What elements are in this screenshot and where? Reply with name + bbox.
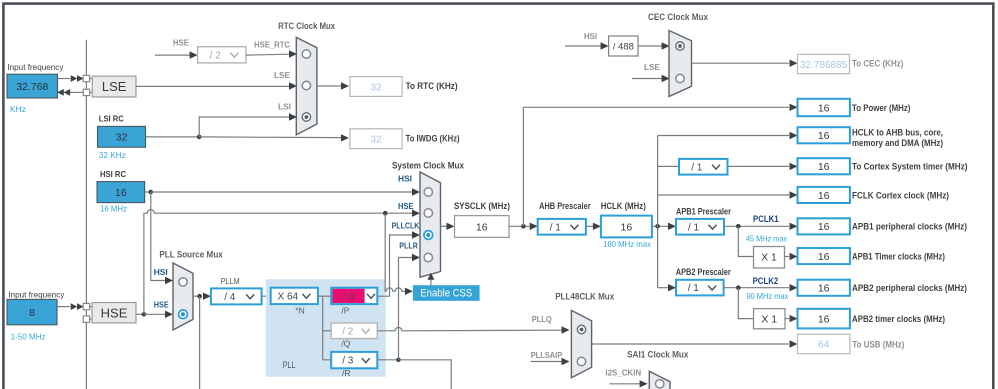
svg-text:16: 16 <box>115 187 127 199</box>
wire to /Q <box>323 330 332 332</box>
svg-text:PLLSAIP: PLLSAIP <box>531 350 563 360</box>
svg-text:SYSCLK (MHz): SYSCLK (MHz) <box>454 201 510 211</box>
svg-text:16: 16 <box>621 221 633 233</box>
wire square to LSE box 2 <box>90 91 93 93</box>
source box HSI RC 16 <box>97 182 145 203</box>
junction SYSCLK branch <box>521 224 526 229</box>
wire HSE stub to divider <box>155 54 190 56</box>
svg-text:*N: *N <box>295 305 304 315</box>
svg-text:To USB (MHz): To USB (MHz) <box>852 339 904 349</box>
svg-text:LSI RC: LSI RC <box>99 113 124 123</box>
label HSI (sys mux) <box>398 173 412 183</box>
wire HSI stub to /488 <box>565 45 601 47</box>
arrow I2S_CKIN into SAI1 mux <box>640 380 648 387</box>
svg-text:64: 64 <box>818 340 830 351</box>
junction PLL source output <box>197 294 202 299</box>
label HSE (sys mux) <box>398 201 414 211</box>
arrow HSI into PLL source mux <box>165 277 173 284</box>
label HCLK (MHz) <box>601 201 646 211</box>
svg-text:To Cortex System timer (MHz): To Cortex System timer (MHz) <box>852 161 968 171</box>
arrow into IWDG box <box>341 134 349 141</box>
label HCLK to AHB bus core <box>852 127 943 148</box>
svg-text:16: 16 <box>476 221 488 233</box>
svg-text:/ 2: / 2 <box>342 326 354 337</box>
radio sys HSI <box>424 188 432 196</box>
double arrow LSE in <box>71 75 84 82</box>
value box HCLK AHB 16 <box>798 127 850 143</box>
svg-text:HSE: HSE <box>101 305 128 320</box>
wire to cortex prescaler <box>658 165 679 167</box>
wire PLL source down branch <box>199 296 201 389</box>
arrow into SYSCLK box <box>447 223 455 230</box>
dropdown AHB prescaler /1 <box>538 219 586 235</box>
svg-text:16 MHz: 16 MHz <box>100 204 127 214</box>
label PLL48CLK Mux <box>555 291 614 301</box>
arrow into APB2 prescaler <box>668 284 676 291</box>
wire APB1 to periph box <box>724 225 789 227</box>
wire divider vertical <box>322 296 324 360</box>
arrow into APB1 periph box <box>790 223 798 230</box>
wire HSE box to connector <box>57 306 70 308</box>
dropdown PLL /P (magenta /8) <box>331 288 377 304</box>
label KHz <box>10 104 26 114</box>
mux RTC Clock Mux <box>296 37 317 134</box>
svg-text:/R: /R <box>342 368 351 378</box>
wire vertical source bus <box>85 40 87 389</box>
arrow PLLR into system mux <box>412 254 420 261</box>
value box APB2 periph 16 <box>798 280 850 296</box>
arrow into APB2 timer box <box>790 315 798 322</box>
source box HSE input 8 <box>7 299 57 324</box>
svg-text:PLL48CLK Mux: PLL48CLK Mux <box>555 291 614 301</box>
radio sys PLLCLK selected <box>424 231 433 240</box>
junction APB1 branch <box>736 224 741 229</box>
value box To RTC 32 <box>350 77 402 97</box>
svg-text:APB2 peripheral clocks (MHz): APB2 peripheral clocks (MHz) <box>852 283 967 293</box>
dropdown PLL /Q (disabled) <box>331 323 377 339</box>
svg-text:To IWDG (KHz): To IWDG (KHz) <box>406 133 460 143</box>
svg-text:PLLCLK: PLLCLK <box>392 221 421 231</box>
arrow into RTC value box <box>341 82 349 89</box>
label CEC Clock Mux <box>648 12 708 22</box>
arrow into Enable CSS <box>405 288 413 295</box>
label LSI (rtc) <box>278 101 291 111</box>
arrow into /488 divider <box>601 42 609 49</box>
wire /P to PLLCLK <box>377 235 415 296</box>
multiplier box X1 (APB1) <box>754 247 785 269</box>
wire PLLM to xN <box>262 295 271 297</box>
svg-text:32.768: 32.768 <box>16 81 48 93</box>
svg-text:HSI: HSI <box>584 31 597 41</box>
wire cortex to box <box>728 165 790 167</box>
connector square HSE bottom <box>83 316 89 322</box>
arrow into CEC value box <box>790 60 798 67</box>
wire LSI output <box>146 136 200 138</box>
radio PLL48 PLLQ selected <box>577 325 585 333</box>
svg-text:45 MHz max: 45 MHz max <box>746 234 788 244</box>
wire LSE box to connector <box>58 78 71 80</box>
label APB1 Timer clocks <box>852 252 945 262</box>
label 32 KHz <box>99 150 126 160</box>
value box To Power 16 <box>798 99 850 116</box>
label /R <box>342 368 351 378</box>
wire AHB to HCLK <box>586 225 593 227</box>
label AHB Prescaler <box>539 201 591 211</box>
wire /Q to PLL48 mux (hop over PLLR) <box>377 327 562 330</box>
svg-text:LSE: LSE <box>274 70 290 80</box>
label HSE_RTC <box>254 40 290 50</box>
svg-text:32: 32 <box>116 132 128 144</box>
svg-text:/ 1: / 1 <box>688 283 700 294</box>
arrow into AHB prescaler <box>530 223 538 230</box>
wire HSI to system mux <box>151 191 416 193</box>
source box LSE input 32.768 <box>7 74 58 98</box>
wire HSE down to Enable CSS (hops) <box>385 213 405 291</box>
svg-text:1-50 MHz: 1-50 MHz <box>11 332 46 342</box>
arrow PLLSAIP into PLL48 mux <box>562 358 570 365</box>
wire to APB2 prescaler <box>658 287 669 289</box>
mux System Clock Mux <box>420 172 441 277</box>
label LSE (cec) <box>644 62 660 72</box>
label LSE (rtc) <box>274 70 290 80</box>
svg-text:AHB Prescaler: AHB Prescaler <box>539 201 591 211</box>
value box cortex timer 16 <box>798 158 850 174</box>
svg-text:16: 16 <box>818 161 830 173</box>
junction PLLR branch <box>396 358 401 363</box>
svg-text:HSE: HSE <box>398 201 414 211</box>
svg-text:8: 8 <box>29 307 35 319</box>
divider dropdown /2 (disabled) <box>198 47 246 63</box>
dropdown PLL xN X 64 <box>271 288 318 304</box>
wire X1 to APB2 timer box <box>785 318 789 320</box>
svg-text:PLL: PLL <box>283 360 296 370</box>
wire APB2 to periph box <box>724 287 789 289</box>
connector square LSE bottom <box>83 89 89 95</box>
wire SYSCLK to AHB prescaler <box>509 225 530 227</box>
svg-text:32.786885: 32.786885 <box>800 60 848 71</box>
wire LSI up branch to RTC mux <box>199 117 290 137</box>
radio RTC HSE_RTC <box>302 50 310 58</box>
arrow PLLQ into PLL48 mux <box>562 326 570 333</box>
svg-text:PLLR: PLLR <box>399 240 418 250</box>
svg-text:16: 16 <box>818 190 830 202</box>
svg-text:/ 1: / 1 <box>550 222 562 233</box>
label Input frequency (LSE) <box>7 62 64 72</box>
wire PLLR up to system mux <box>399 258 416 360</box>
value box To USB 64 <box>798 334 850 353</box>
label 90 MHz max <box>746 291 789 301</box>
dropdown PLL /R <box>331 352 377 368</box>
svg-text:32 KHz: 32 KHz <box>99 150 126 160</box>
svg-text:APB1 Timer clocks (MHz): APB1 Timer clocks (MHz) <box>852 252 945 262</box>
svg-text:LSE: LSE <box>644 62 660 72</box>
value box HCLK 16 <box>601 216 652 238</box>
svg-text:HSI: HSI <box>154 267 168 277</box>
svg-text:/ 2: / 2 <box>210 50 222 61</box>
svg-text:PCLK2: PCLK2 <box>753 276 779 286</box>
wire HSE to PLL source mux <box>144 313 166 315</box>
arrow into APB2 periph box <box>790 284 798 291</box>
multiplier box X1 (APB2) <box>754 309 786 329</box>
label HSI (cec) <box>584 31 597 41</box>
dropdown APB2 prescaler /1 <box>676 280 724 296</box>
label To CEC (KHz) <box>852 58 903 68</box>
label To USB (MHz) <box>852 339 904 349</box>
label *N <box>295 305 304 315</box>
arrow HSI into system mux <box>412 188 420 195</box>
wire HSI output <box>145 191 151 193</box>
wire Enable CSS to mux <box>430 277 432 285</box>
svg-text:HSI: HSI <box>398 173 412 183</box>
wire CEC mux output <box>692 62 790 64</box>
svg-text:/ 1: / 1 <box>688 222 700 233</box>
svg-text:APB1 Prescaler: APB1 Prescaler <box>676 206 731 216</box>
wire to HCLK AHB bus box <box>658 135 789 137</box>
junction HCLK branch <box>655 224 660 229</box>
wire LSI to IWDG <box>199 136 341 139</box>
arrow into HSE_RTC divider <box>190 51 198 58</box>
label To Power (MHz) <box>852 103 910 113</box>
svg-text:/ 488: / 488 <box>613 42 634 53</box>
arrow HSE into system mux <box>412 210 420 217</box>
svg-text:X 1: X 1 <box>761 313 777 325</box>
radio CEC LSE <box>676 74 684 82</box>
mux PLL Source Mux <box>173 263 193 330</box>
wire X1 to APB1 timer box <box>785 256 790 258</box>
radio PLL48 PLLSAIP <box>577 357 585 365</box>
wire square to LSE box <box>90 78 93 80</box>
wire PLL48 output to USB <box>592 343 789 345</box>
radio CEC HSI selected <box>676 42 684 50</box>
arrow into HCLK AHB box <box>790 132 798 139</box>
oscillator box HSE <box>92 303 136 323</box>
wire APB1 to X1 <box>738 226 753 256</box>
label PLLSAIP <box>531 350 563 360</box>
svg-text:HSE_RTC: HSE_RTC <box>254 40 290 50</box>
svg-text:/ 1: / 1 <box>691 162 703 173</box>
value box SYSCLK 16 <box>455 216 510 238</box>
svg-text:Enable CSS: Enable CSS <box>420 288 472 300</box>
wire to /R <box>323 359 332 361</box>
junction HSE branch <box>142 312 147 317</box>
arrow HSE_RTC into RTC mux <box>289 50 297 57</box>
arrow into FCLK box <box>790 191 798 198</box>
label To Cortex System timer <box>852 161 968 171</box>
panel PLL background <box>266 279 386 377</box>
wire square to HSE box 2 <box>90 318 93 320</box>
svg-text:180 MHz max: 180 MHz max <box>603 239 652 249</box>
oscillator box LSE <box>92 76 136 97</box>
wire APB2 to X1 <box>738 288 753 319</box>
label 180 MHz max <box>603 239 652 249</box>
label PLLM <box>221 276 240 286</box>
arrow Enable CSS up <box>427 273 434 280</box>
label PLLQ <box>532 314 552 324</box>
wire PLL source mux output <box>193 295 200 297</box>
svg-text:/Q: /Q <box>341 338 350 348</box>
svg-text:HCLK (MHz): HCLK (MHz) <box>601 201 646 211</box>
wire SYSCLK up to To Power <box>523 107 789 226</box>
mux PLL48CLK Mux <box>571 310 591 377</box>
svg-text:APB2 timer clocks (MHz): APB2 timer clocks (MHz) <box>852 314 945 324</box>
svg-text:HSE: HSE <box>154 300 169 310</box>
svg-text:memory and DMA (MHz): memory and DMA (MHz) <box>852 138 943 148</box>
label /P <box>341 305 349 315</box>
svg-text:X 64: X 64 <box>278 292 299 303</box>
svg-text:To Power (MHz): To Power (MHz) <box>852 103 910 113</box>
label APB2 Prescaler <box>676 267 731 277</box>
connector square LSE top <box>83 75 89 81</box>
wire LSE return <box>70 91 83 93</box>
label APB1 Prescaler <box>676 206 731 216</box>
junction HSI branch <box>149 190 154 195</box>
value box APB2 timer 16 <box>798 309 850 329</box>
mux SAI1 Clock Mux <box>649 371 670 389</box>
label System Clock Mux <box>392 161 464 171</box>
arrow into PLLM <box>203 293 211 300</box>
label To RTC (KHz) <box>406 81 458 91</box>
label /Q <box>341 338 350 348</box>
arrow LSE into CEC mux <box>662 75 670 82</box>
svg-text:16: 16 <box>818 130 830 142</box>
svg-text:FCLK Cortex clock (MHz): FCLK Cortex clock (MHz) <box>852 190 949 200</box>
value box APB1 periph 16 <box>798 218 850 234</box>
svg-text:System Clock Mux: System Clock Mux <box>392 161 464 171</box>
value box To CEC <box>798 54 850 73</box>
svg-text:X 1: X 1 <box>761 251 777 263</box>
svg-text:16: 16 <box>818 283 830 295</box>
label PLL Source Mux <box>159 250 222 260</box>
label APB1 peripheral clocks <box>852 222 967 232</box>
wire system mux output <box>441 225 448 227</box>
svg-text:RTC Clock Mux: RTC Clock Mux <box>278 21 335 31</box>
svg-text:HSI RC: HSI RC <box>100 169 126 179</box>
label FCLK Cortex clock <box>852 190 949 200</box>
arrow into To Power box <box>790 104 798 111</box>
junction HSE to CSS <box>383 211 388 216</box>
label 16 MHz <box>100 204 127 214</box>
label I2S_CKIN <box>605 368 641 378</box>
svg-text:CEC Clock Mux: CEC Clock Mux <box>648 12 708 22</box>
wire square to HSE box <box>90 306 93 308</box>
svg-text:/ 8: / 8 <box>343 292 355 303</box>
label HSE (rtc div src) <box>173 37 189 47</box>
wire /488 to CEC mux <box>638 45 662 47</box>
label PLL <box>283 360 296 370</box>
divider box /488 <box>609 36 638 56</box>
svg-text:PCLK1: PCLK1 <box>753 214 779 224</box>
label PLLR <box>399 240 418 250</box>
label SAI1 Clock Mux <box>627 349 688 359</box>
svg-text:SAI1 Clock Mux: SAI1 Clock Mux <box>627 349 688 359</box>
radio PLL src HSE selected <box>179 310 188 319</box>
label LSI RC <box>99 113 124 123</box>
svg-text:16: 16 <box>818 102 830 114</box>
wire HCLK vertical bus <box>657 136 659 288</box>
svg-text:PLL Source Mux: PLL Source Mux <box>159 250 222 260</box>
svg-text:/ 4: / 4 <box>224 292 236 303</box>
svg-text:To CEC (KHz): To CEC (KHz) <box>852 58 903 68</box>
mux CEC Clock Mux <box>669 31 692 97</box>
label HSI (pll mux) <box>154 267 168 277</box>
svg-text:Input frequency: Input frequency <box>7 62 64 72</box>
dropdown PLLM /4 <box>211 288 262 304</box>
label PLLCLK <box>392 221 421 231</box>
arrow into APB1 timer box <box>790 253 798 260</box>
label 1-50 MHz <box>11 332 46 342</box>
svg-text:32: 32 <box>370 135 382 146</box>
radio RTC LSI selected <box>302 113 310 121</box>
arrow LSE into RTC mux <box>289 82 297 89</box>
svg-text:Input frequency: Input frequency <box>8 289 65 299</box>
label HSI RC <box>100 169 126 179</box>
svg-text:90 MHz max: 90 MHz max <box>746 291 789 301</box>
svg-text:To RTC (KHz): To RTC (KHz) <box>406 81 458 91</box>
radio PLL src HSI <box>179 278 187 286</box>
connector square HSE top <box>83 303 89 309</box>
label APB2 timer clocks <box>852 314 945 324</box>
dropdown APB1 prescaler /1 <box>676 219 724 235</box>
label PCLK1 <box>753 214 779 224</box>
dropdown cortex /1 <box>679 159 728 175</box>
svg-text:PLLM: PLLM <box>221 276 240 286</box>
svg-text:KHz: KHz <box>10 104 26 114</box>
wire HSI down to PLL source mux <box>151 192 166 281</box>
wire /R to bottom <box>399 360 452 389</box>
svg-text:HCLK to AHB bus, core,: HCLK to AHB bus, core, <box>852 127 943 137</box>
arrow into USB box <box>790 340 798 347</box>
arrow into HCLK box <box>593 223 601 230</box>
label HSE (pll mux) <box>154 300 169 310</box>
arrow HSI/488 into CEC mux <box>662 42 670 49</box>
svg-text:/ 3: / 3 <box>342 356 354 367</box>
wire to FCLK box <box>658 194 789 196</box>
double arrow HSE in <box>71 303 84 310</box>
junction APB2 branch <box>736 285 741 290</box>
radio sys HSE <box>424 209 432 217</box>
label RTC Clock Mux <box>278 21 335 31</box>
value box To IWDG 32 <box>350 129 402 149</box>
radio RTC LSE <box>302 81 310 89</box>
wire HSE_RTC to RTC mux <box>246 53 290 56</box>
double arrow LSE out <box>57 89 70 96</box>
value box FCLK 16 <box>798 187 850 203</box>
button Enable CSS <box>413 285 480 301</box>
value box APB1 timer 16 <box>798 248 850 264</box>
wire HSE output <box>136 313 144 315</box>
wire HCLK output <box>652 225 668 227</box>
svg-text:APB2 Prescaler: APB2 Prescaler <box>676 267 731 277</box>
radio sys PLLR <box>424 253 432 261</box>
label To IWDG (KHz) <box>406 133 460 143</box>
wire HSE up branch to system mux (hop over HSI) <box>144 210 416 315</box>
arrow HSE into PLL source mux <box>165 311 173 318</box>
source box LSI RC 32 <box>98 126 146 147</box>
svg-text:16: 16 <box>818 251 830 263</box>
label APB2 peripheral clocks <box>852 283 967 293</box>
wire LSE to RTC mux <box>136 85 290 87</box>
label 45 MHz max <box>746 234 788 244</box>
svg-text:LSE: LSE <box>102 79 127 94</box>
svg-text:HSE: HSE <box>173 37 189 47</box>
radio SAI1 input <box>656 380 664 388</box>
wire LSE stub to CEC mux <box>632 78 662 80</box>
svg-text:16: 16 <box>818 313 830 325</box>
arrow into APB1 prescaler <box>668 223 676 230</box>
svg-text:APB1 peripheral clocks (MHz): APB1 peripheral clocks (MHz) <box>852 222 967 232</box>
wire PLLSAIP stub <box>531 361 562 363</box>
wire I2S_CKIN stub <box>610 383 640 385</box>
